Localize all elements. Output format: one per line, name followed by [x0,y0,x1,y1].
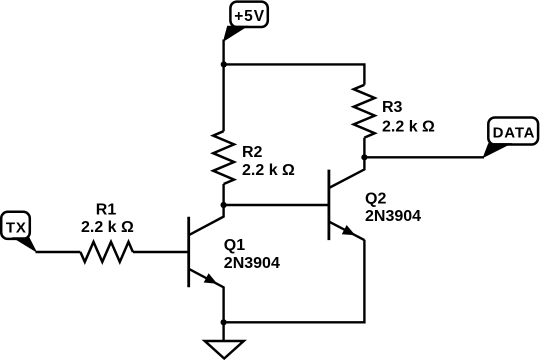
+5V power flag box [230,2,267,27]
svg-text:R3: R3 [382,99,403,116]
svg-text:TX: TX [6,220,27,237]
node B junction dot DATA/Q2 collector [361,154,367,160]
svg-text:2.2 k Ω: 2.2 k Ω [81,219,134,236]
wire node C to Q2 base [224,204,329,206]
ground symbol [205,341,244,359]
svg-text:2.2 k Ω: 2.2 k Ω [382,118,435,135]
transistor Q1 collector [189,205,224,235]
transistor Q1 emitter arrow [204,273,218,284]
node D junction dot ground [221,319,227,325]
svg-text:R1: R1 [96,201,117,218]
transistor Q1 emitter [189,269,224,323]
wire R3 bottom lead [363,138,365,158]
wire ground lead [222,322,224,341]
DATA tag pointer [483,143,513,158]
wire top rail and R3 top lead [224,64,365,84]
transistor Q2 emitter [329,222,365,241]
wire R2 top lead [222,64,224,131]
node C junction dot Q1 collector [221,202,227,208]
DATA port box [488,118,538,145]
wire +5V lead down to top rail [222,40,224,65]
svg-text:2.2 k Ω: 2.2 k Ω [242,162,295,179]
wire TX to R1 [36,251,81,253]
+5V flag pointer [223,26,249,42]
svg-text:R2: R2 [242,144,263,161]
svg-text:Q2: Q2 [365,190,386,207]
node A junction dot at +5V rail [221,61,227,67]
resistor R3 [354,85,375,138]
resistor R2 [213,131,234,184]
resistor R1 [80,242,132,262]
transistor Q2 emitter arrow [342,225,356,235]
wire node B to DATA tag [364,156,484,158]
wire R2 bottom lead [222,184,224,205]
svg-text:2N3904: 2N3904 [365,208,421,225]
svg-text:Q1: Q1 [224,237,245,254]
wire R1 to Q1 base [133,251,189,253]
TX port box [1,212,30,239]
transistor Q2 collector [329,157,365,188]
transistor Q2 base bar [327,170,330,241]
svg-text:DATA: DATA [493,125,536,142]
wire Q2 emitter down and bottom rail to node D [224,240,365,322]
svg-text:+5V: +5V [234,8,265,25]
svg-text:2N3904: 2N3904 [224,255,280,272]
transistor Q1 base bar [187,217,190,287]
TX tag pointer [12,237,38,253]
